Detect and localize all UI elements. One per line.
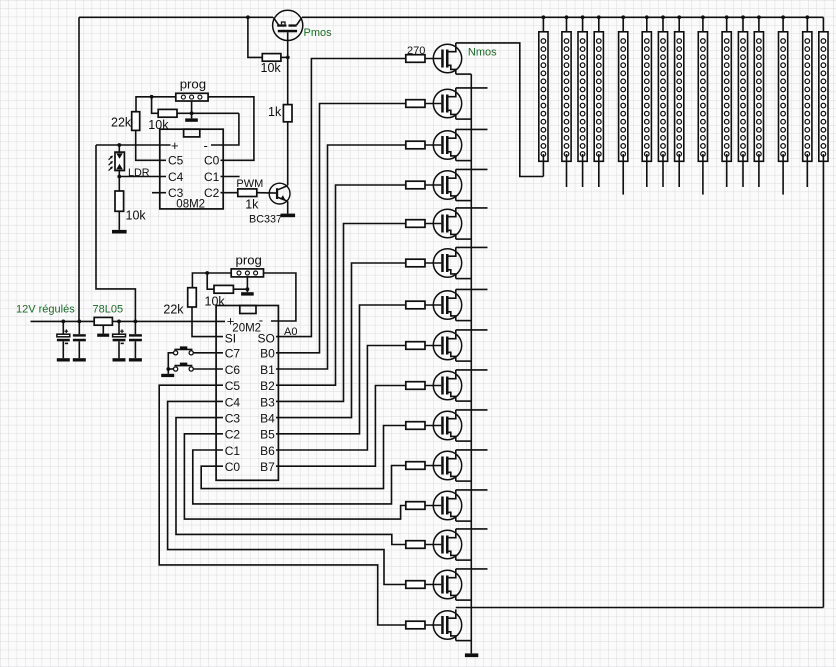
wire 20M2 C3 to transistor Q13 gate	[176, 418, 406, 545]
resistor gate R13	[406, 541, 425, 549]
svg-text:B3: B3	[260, 395, 275, 409]
resistor gate R11	[406, 462, 425, 470]
U2 orientation notch	[240, 306, 256, 314]
svg-text:B5: B5	[260, 428, 275, 442]
wire bus to LED column 10	[726, 17, 728, 32]
transistor Q2 BC337 (NPN)	[269, 183, 290, 204]
junction LDR bottom / C4	[117, 175, 121, 179]
junction rail x=135.4	[134, 320, 138, 324]
LED column 9 (bargraph)	[698, 32, 707, 162]
resistor gate R3	[406, 141, 425, 149]
junction 10k / prog1 center pin	[190, 111, 194, 115]
wire Q7 drain stub	[456, 288, 488, 290]
junction button 2 left	[166, 367, 170, 371]
wire Q8 source to bus	[456, 360, 472, 362]
wire Q3 drain stub	[456, 128, 488, 130]
junction LDR top	[117, 143, 121, 147]
resistor 22k (LDR pullup)	[132, 112, 140, 131]
svg-text:22k: 22k	[163, 303, 184, 317]
transistor Q13 Nmos	[433, 529, 461, 560]
svg-text:prog: prog	[180, 76, 206, 91]
wire LED column 15 cathode	[822, 154, 824, 608]
junction rail x=79.3	[77, 320, 81, 324]
wire gate R11 to Q11	[425, 465, 441, 467]
wire Q5 drain stub	[456, 207, 488, 209]
svg-text:C3: C3	[225, 412, 241, 426]
junction gate node	[286, 56, 290, 60]
wire gate R7 to Q7	[425, 304, 441, 306]
resistor 10k (serial in)	[158, 109, 177, 117]
svg-text:BC337: BC337	[249, 214, 282, 226]
wire bus to LED column 5	[622, 17, 624, 32]
wire LED column 13 cathode	[782, 154, 784, 195]
wire 20M2 B6 to transistor Q8 gate	[276, 346, 406, 451]
wire gate R6 to Q6	[425, 262, 441, 264]
wire prog2 pin1 to 22k	[192, 273, 231, 288]
ground (C2 input ceramic)	[73, 358, 86, 361]
wire LED column 8 cathode	[678, 154, 680, 187]
svg-text:B0: B0	[260, 347, 275, 361]
LED column 15 (bargraph)	[819, 32, 828, 162]
wire gate R5 to Q5	[425, 223, 441, 225]
wire Q6 drain stub	[456, 246, 488, 248]
svg-text:Pmos: Pmos	[304, 27, 333, 39]
svg-text:12V régulés: 12V régulés	[16, 304, 75, 316]
resistor gate R7	[406, 301, 425, 309]
wire riser down to 08M2 minus pin	[211, 113, 239, 145]
wire gate R3 to Q3	[425, 144, 441, 146]
resistor gate R10	[406, 422, 425, 430]
resistor gate R6	[406, 259, 425, 267]
LED column 6 (bargraph)	[642, 32, 651, 162]
wire 10k to prog2 center	[233, 288, 247, 290]
ground (buttons)	[161, 374, 174, 377]
wire bus to LED column 6	[646, 17, 648, 32]
wire bus to LED column 9	[702, 17, 704, 32]
svg-text:10k: 10k	[205, 295, 226, 309]
svg-text:C2: C2	[204, 186, 220, 200]
wire Q2 source to bus	[456, 118, 472, 120]
wire Q14 source to bus	[456, 599, 472, 601]
regulator 78L05	[94, 317, 112, 325]
wire LED column 12 cathode	[758, 154, 760, 187]
wire Q15 source to bus	[456, 640, 472, 642]
transistor Q9 Nmos	[433, 370, 461, 401]
wire Q12 source to bus	[456, 520, 472, 522]
resistor gate R4	[406, 181, 425, 189]
wire PWM resistor to BC337 base	[257, 192, 277, 194]
transistor Q2 Nmos	[433, 88, 461, 119]
prog1 pin 3	[198, 95, 202, 99]
wire bus to LED column 4	[598, 17, 600, 41]
junction bus / column 14	[805, 15, 809, 19]
LED column 10 (bargraph)	[722, 32, 731, 162]
wire Q13 drain stub	[456, 528, 488, 530]
ground (C4 output ceramic)	[129, 358, 142, 361]
junction bus / column 5	[621, 15, 625, 19]
wire Q10 source to bus	[456, 440, 472, 442]
junction bus / column 2	[565, 15, 569, 19]
resistor gate R1 270	[406, 55, 425, 63]
wire 20M2 B0 to transistor Q2 gate	[276, 104, 406, 353]
wire junction down to 10k	[152, 97, 159, 114]
wire prog1 pin1 to 22k	[136, 97, 176, 112]
resistor 22k (serial 2)	[188, 288, 197, 307]
wire bus to LED column 11	[742, 17, 744, 32]
junction bus / column 7	[661, 15, 665, 19]
svg-text:C1: C1	[225, 444, 241, 458]
svg-text:SO: SO	[257, 331, 274, 345]
wire LED column 7 cathode	[662, 154, 664, 187]
wire bus to LED column 2	[566, 17, 568, 32]
transistor Q14 Nmos	[433, 569, 461, 600]
wire Q1 drain to LED column 1	[456, 43, 544, 177]
junction bus / column 10	[725, 15, 729, 19]
LDR photoresistor	[109, 145, 125, 177]
svg-text:B1: B1	[260, 363, 275, 377]
wire Q8 drain stub	[456, 329, 488, 331]
wire 20M2 C5 to transistor Q15 gate	[159, 385, 406, 625]
wire 10k to minus-pin riser	[177, 112, 239, 114]
transistor Q3 Nmos	[433, 129, 461, 160]
junction bus / Pmos gate network	[246, 15, 250, 19]
LED column 4 (bargraph)	[594, 32, 603, 162]
wire LDR junction to C4	[119, 176, 166, 178]
junction bus / column 6	[645, 15, 649, 19]
wire bus to LED column 12	[758, 17, 760, 41]
ground (prog1)	[185, 118, 198, 121]
wire 20M2 C1 to transistor Q11 gate	[193, 450, 406, 504]
svg-text:C2: C2	[225, 428, 241, 442]
wire 08M2 plus pin to 5V feed	[96, 144, 171, 146]
capacitor C3 output electrolytic (electrolytic)	[113, 321, 126, 358]
resistor gate R12	[406, 502, 425, 510]
wire 20M2 B3 to transistor Q5 gate	[276, 224, 406, 402]
svg-text:C4: C4	[168, 170, 184, 184]
ground (source bus)	[465, 653, 478, 657]
wire LED column 6 cathode	[646, 154, 648, 187]
LED column 2 (bargraph)	[562, 32, 571, 162]
wire gate R15 to Q15	[425, 624, 441, 626]
wire Q11 drain stub	[456, 449, 488, 451]
wire to button 2	[168, 368, 173, 370]
wire gate R4 to Q4	[425, 184, 441, 186]
svg-text:PWM: PWM	[236, 178, 263, 190]
wire LED column 4 cathode	[598, 154, 600, 187]
junction 10k / prog2 center pin	[246, 287, 250, 291]
transistor Q7 Nmos	[433, 289, 461, 320]
transistor Pmos Q1 (P-MOSFET)	[273, 10, 303, 40]
wire bus to LED column 7	[662, 17, 664, 41]
wire Q9 source to bus	[456, 400, 472, 402]
junction bus / column 13	[781, 15, 785, 19]
resistor 10k (Pmos gate-source)	[262, 54, 281, 62]
ground (78L05)	[97, 334, 109, 337]
wire gate R8 to Q8	[425, 345, 441, 347]
wire bus to LED column 1	[542, 17, 544, 32]
wire C1 stub	[221, 176, 240, 178]
LED column 11 (bargraph)	[738, 32, 747, 162]
wire 20M2 C2 to transistor Q12 gate	[184, 434, 405, 519]
wire C3 stub	[152, 192, 166, 194]
junction bus / column 9	[701, 15, 705, 19]
svg-text:10k: 10k	[126, 208, 147, 222]
svg-text:B7: B7	[260, 460, 275, 474]
wire common source bus	[470, 74, 472, 653]
transistor Q8 Nmos	[433, 330, 461, 361]
wire Q10 drain stub	[456, 409, 488, 411]
op-amp U2 20M2 PICAXE body	[216, 306, 278, 481]
wire gate R13 to Q13	[425, 544, 441, 546]
ground (LDR divider)	[112, 230, 127, 234]
wire 5V rail to 20M2 plus pin	[112, 320, 225, 322]
wire 5V feed down to rail	[96, 145, 135, 321]
wire 20M2 B7 to transistor Q9 gate	[276, 386, 406, 467]
wire 78L05 ground pin	[102, 325, 104, 333]
connector prog header 2	[231, 269, 263, 277]
wire Q1 source to bus	[456, 73, 472, 75]
wire 10k to gate node	[281, 56, 288, 58]
svg-text:prog: prog	[236, 252, 262, 267]
LED column 5 (bargraph)	[619, 32, 628, 162]
LED column 7 (bargraph)	[658, 32, 667, 162]
wire Q7 source to bus	[456, 320, 472, 322]
wire gate R14 to Q14	[425, 584, 441, 586]
wire 1k to BC337 collector	[287, 122, 289, 186]
transistor Q4 Nmos	[433, 169, 461, 200]
prog2 pin 2	[245, 271, 249, 275]
svg-text:C5: C5	[225, 379, 241, 393]
resistor 1k (PWM base)	[238, 189, 257, 197]
wire Pmos gate down to 1k	[287, 32, 289, 104]
svg-text:22k: 22k	[111, 115, 132, 129]
LED column 14 (bargraph)	[803, 32, 812, 162]
svg-text:-: -	[204, 138, 208, 153]
wire Q11 source to bus	[456, 480, 472, 482]
transistor Q10 Nmos	[433, 410, 461, 441]
svg-text:+: +	[171, 138, 179, 153]
wire LED column 10 cathode	[726, 154, 728, 187]
svg-text:C5: C5	[168, 154, 184, 168]
wire 22k to C5	[136, 130, 166, 160]
svg-text:08M2: 08M2	[176, 198, 205, 210]
wire bus to LED column 3	[582, 17, 584, 32]
wire LED column 2 cathode	[566, 154, 568, 187]
junction bus / column 3	[581, 15, 585, 19]
wire gate R12 to Q12	[425, 505, 441, 507]
svg-text:C0: C0	[225, 460, 241, 474]
junction rail x=119	[117, 320, 121, 324]
wire prog2 center pin to ground	[246, 277, 248, 292]
wire LED column 1 cathode	[542, 154, 544, 177]
transistor Q15 Nmos	[433, 609, 461, 640]
wire 20M2 B1 to transistor Q3 gate	[276, 145, 406, 369]
LED column 8 (bargraph)	[675, 32, 684, 162]
capacitor C1 input electrolytic (electrolytic)	[57, 321, 70, 358]
svg-text:Nmos: Nmos	[468, 46, 497, 58]
wire 22k to SI	[192, 307, 223, 337]
wire 08M2 C2 pin to PWM resistor	[221, 192, 238, 194]
wire 20M2 B5 to transistor Q7 gate	[276, 305, 406, 434]
wire buttons common to ground	[168, 353, 173, 374]
resistor gate R5	[406, 220, 425, 228]
wire Q13 source to bus	[456, 559, 472, 561]
wire gate R10 to Q10	[425, 425, 441, 427]
svg-text:10k: 10k	[261, 61, 282, 75]
resistor 1k (Pmos gate drive)	[283, 105, 292, 122]
wire button1 to C7	[193, 352, 223, 354]
ground (BC337 emitter)	[281, 214, 296, 218]
wire top 12V bus left segment	[79, 16, 273, 18]
svg-text:10k: 10k	[148, 118, 169, 132]
wire junction down to 10k	[207, 273, 214, 289]
resistor gate R8	[406, 342, 425, 350]
svg-text:B2: B2	[260, 379, 275, 393]
ground (prog2)	[241, 292, 254, 295]
U1 orientation notch	[184, 129, 200, 137]
wire top 12V bus right segment	[302, 16, 823, 18]
resistor gate R14	[406, 581, 425, 589]
wire LED column 9 cathode	[702, 154, 704, 195]
wire LED column 5 cathode	[622, 154, 624, 195]
wire bus to LED column 13	[782, 17, 784, 32]
wire LED column 11 cathode	[742, 154, 744, 187]
wire gate R1 to Q1	[425, 58, 441, 60]
resistor 10k (serial in 2)	[214, 285, 233, 293]
wire Q4 drain stub	[456, 168, 488, 170]
prog2 pin 1	[237, 271, 241, 275]
svg-text:C0: C0	[204, 154, 220, 168]
wire LED column 14 cathode	[806, 154, 808, 187]
wire 20M2 SO to transistor Q1 gate	[276, 59, 406, 337]
pushbutton SW1 (C7)	[174, 346, 194, 355]
svg-text:B4: B4	[260, 412, 275, 426]
capacitor C4 output ceramic (ceramic)	[129, 321, 142, 358]
svg-text:C7: C7	[225, 347, 241, 361]
transistor Q5 Nmos	[433, 208, 461, 239]
wire junction down to 10k	[118, 177, 120, 192]
junction bus / column 11	[741, 15, 745, 19]
wire bus to LED column 14	[806, 17, 808, 32]
junction bus / column 12	[757, 15, 761, 19]
ground (C3 output electrolytic)	[113, 358, 126, 361]
wire gate R2 to Q2	[425, 103, 441, 105]
prog2 pin 3	[254, 271, 258, 275]
wire bus to LED column 15	[822, 17, 824, 32]
svg-text:SI: SI	[225, 331, 236, 345]
svg-text:B6: B6	[260, 444, 275, 458]
junction bus / column 8	[677, 15, 681, 19]
wire 20M2 C4 to transistor Q14 gate	[168, 401, 406, 584]
wire bus to LED column 8	[678, 17, 680, 32]
wire prog1 pin3 to C0	[208, 97, 254, 161]
LED column 13 (bargraph)	[779, 32, 788, 162]
wire 20M2 C0 to transistor Q10 gate	[201, 426, 406, 489]
svg-text:C6: C6	[225, 363, 241, 377]
junction prog1 left	[150, 95, 154, 99]
wire 20M2 B2 to transistor Q4 gate	[276, 185, 406, 385]
wire Q15 drain to LED column 15	[456, 607, 824, 609]
wire LED column 3 cathode	[582, 154, 584, 187]
resistor 10k (LDR divider)	[115, 191, 124, 211]
wire Q5 source to bus	[456, 238, 472, 240]
transistor Q11 Nmos	[433, 450, 461, 481]
wire 12V rail	[31, 320, 95, 322]
ground (C1 input electrolytic)	[57, 358, 70, 361]
wire prog1 center pin to ground	[191, 101, 193, 118]
transistor Q1 Nmos	[433, 43, 461, 74]
prog1 pin 1	[181, 95, 185, 99]
capacitor C2 input ceramic (ceramic)	[73, 321, 86, 358]
wire Q12 drain stub	[456, 489, 488, 491]
wire Q14 drain stub	[456, 568, 488, 570]
transistor Q12 Nmos	[433, 490, 461, 521]
LED column 3 (bargraph)	[578, 32, 587, 162]
junction prog2 left	[205, 271, 209, 275]
wire BC337 emitter to ground	[287, 201, 289, 213]
wire Q3 source to bus	[456, 160, 472, 162]
junction bus / column 1	[542, 15, 546, 19]
wire button2 to C6	[193, 368, 223, 370]
prog1 pin 2	[190, 95, 194, 99]
wire left 12V drop to rail	[78, 17, 80, 321]
wire 20M2 B4 to transistor Q6 gate	[276, 263, 406, 418]
pushbutton SW2 (C6)	[174, 363, 194, 372]
wire 10k to ground	[118, 211, 120, 230]
transistor Q6 Nmos	[433, 247, 461, 278]
wire prog2 pin3 to 20M2 minus	[264, 273, 296, 321]
wire Q4 source to bus	[456, 200, 472, 202]
wire Q6 source to bus	[456, 278, 472, 280]
LED column 12 (bargraph)	[754, 32, 763, 162]
LED column 1 (bargraph)	[539, 32, 548, 162]
junction rail x=63.3	[61, 320, 65, 324]
svg-text:1k: 1k	[268, 105, 282, 119]
wire bus tap down to 10k	[248, 17, 262, 57]
svg-text:1k: 1k	[245, 197, 259, 211]
resistor gate R9	[406, 382, 425, 390]
svg-text:78L05: 78L05	[93, 304, 124, 316]
junction bus / column 4	[597, 15, 601, 19]
connector prog header 1	[176, 93, 208, 101]
wire Q2 drain stub	[456, 87, 488, 89]
wire gate R9 to Q9	[425, 385, 441, 387]
svg-text:C1: C1	[204, 170, 220, 184]
op-amp U1 08M2 PICAXE body	[160, 129, 223, 209]
svg-text:C4: C4	[225, 395, 241, 409]
wire Q9 drain stub	[456, 369, 488, 371]
resistor gate R2	[406, 100, 425, 108]
resistor gate R15	[406, 621, 425, 629]
